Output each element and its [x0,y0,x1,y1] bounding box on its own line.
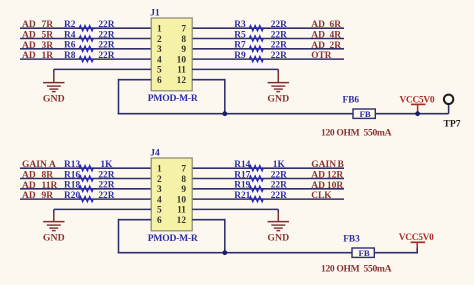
svg-text:22R: 22R [98,170,114,180]
svg-text:8: 8 [181,175,186,185]
svg-text:J1: J1 [150,9,160,19]
wire [372,252,417,254]
resistor R19 [234,181,287,192]
resistor R5 [234,30,287,41]
svg-text:R3: R3 [234,20,246,30]
svg-text:3: 3 [157,45,162,55]
svg-text:8: 8 [181,35,186,45]
svg-text:22R: 22R [98,41,114,51]
svg-text:R4: R4 [64,30,76,40]
svg-text:5: 5 [157,206,162,216]
svg-text:22R: 22R [271,41,287,51]
wire [20,48,151,50]
svg-text:OTR: OTR [311,51,331,61]
svg-text:5: 5 [157,66,162,76]
svg-text:VCC5V0: VCC5V0 [399,233,434,243]
svg-text:R8: R8 [64,51,76,61]
wire [373,113,448,115]
resistor R20 [64,191,115,202]
wire [20,58,151,60]
resistor R18 [64,181,115,192]
svg-text:120 OHM 550mA: 120 OHM 550mA [321,128,392,139]
resistor R14 [234,160,285,171]
svg-text:12: 12 [177,76,187,86]
svg-text:1: 1 [157,25,162,35]
resistor R17 [234,170,287,181]
wire [20,188,151,190]
resistor R3 [234,20,287,31]
wire [192,68,278,70]
svg-text:22R: 22R [98,181,114,191]
resistor R4 [64,30,115,41]
svg-text:R6: R6 [64,41,76,51]
svg-text:1K: 1K [273,160,286,170]
svg-text:9: 9 [181,185,186,195]
svg-text:22R: 22R [271,170,287,180]
svg-text:R18: R18 [64,181,80,191]
svg-text:GND: GND [267,233,289,244]
wire [416,248,418,254]
svg-text:22R: 22R [271,20,287,30]
wire [118,113,355,115]
svg-text:R2: R2 [64,20,76,30]
resistor R21 [234,191,287,202]
wire [192,167,344,169]
ground [43,209,65,243]
svg-text:GND: GND [267,93,289,104]
wire [54,208,151,210]
wire [118,252,354,254]
svg-text:R19: R19 [234,181,250,191]
svg-text:R14: R14 [234,160,250,170]
svg-text:R16: R16 [64,170,80,180]
wire [448,104,450,114]
power VCC5V0 [399,233,434,249]
svg-text:FB: FB [359,248,370,258]
svg-text:R21: R21 [234,191,250,201]
svg-text:GND: GND [43,233,65,244]
connector J1 PMOD-M-R [148,9,199,104]
svg-text:22R: 22R [98,191,114,201]
ferrite bead FB6 [321,96,392,139]
resistor R9 [234,51,287,62]
wire [192,198,344,200]
svg-text:22R: 22R [271,191,287,201]
svg-text:10: 10 [177,55,187,65]
wire [192,48,344,50]
junction [415,111,420,116]
wire [20,38,151,40]
svg-text:FB3: FB3 [343,234,360,244]
svg-text:FB: FB [360,109,371,119]
svg-text:11: 11 [177,66,186,76]
svg-text:AD12R: AD12R [311,171,343,181]
junction [222,250,227,255]
wire [192,27,344,29]
svg-text:120 OHM 550mA: 120 OHM 550mA [321,264,392,275]
svg-text:6: 6 [157,76,162,86]
svg-text:4: 4 [157,195,162,205]
wire [192,188,344,190]
wire [118,79,120,114]
svg-text:9: 9 [181,45,186,55]
wire [192,79,225,81]
svg-text:22R: 22R [271,51,287,61]
wire [192,208,278,210]
resistor R2 [64,20,115,31]
ground [267,209,289,243]
wire [224,79,226,114]
svg-text:10: 10 [177,195,187,205]
resistor R13 [64,160,113,171]
svg-text:PMOD-M-R: PMOD-M-R [148,93,199,104]
svg-text:R5: R5 [234,30,246,40]
svg-text:22R: 22R [98,30,114,40]
svg-text:AD10R: AD10R [311,181,343,191]
svg-text:22R: 22R [98,20,114,30]
wire [118,219,120,253]
svg-text:22R: 22R [271,181,287,191]
svg-text:6: 6 [157,216,162,226]
svg-text:1K: 1K [100,160,113,170]
wire [20,178,151,180]
svg-text:4: 4 [157,55,162,65]
wire [54,68,151,70]
svg-text:R20: R20 [64,191,80,201]
test point TP7 [444,95,461,130]
resistor R7 [234,41,287,52]
wire [192,178,344,180]
svg-text:PMOD-M-R: PMOD-M-R [148,233,199,244]
wire [20,27,151,29]
wire [119,79,152,81]
svg-text:22R: 22R [271,30,287,40]
svg-text:GND: GND [43,93,65,104]
wire [192,38,344,40]
svg-text:R7: R7 [234,41,246,51]
resistor R6 [64,41,115,52]
svg-text:22R: 22R [98,51,114,61]
svg-text:2: 2 [157,35,162,45]
svg-text:GAINA: GAINA [22,160,56,170]
svg-text:12: 12 [177,216,187,226]
svg-text:11: 11 [177,206,186,216]
ground [43,69,65,104]
power VCC5V0 [400,96,435,113]
ground [267,69,289,104]
svg-text:2: 2 [157,175,162,185]
svg-text:R13: R13 [64,160,80,170]
svg-text:CLK: CLK [311,191,332,201]
svg-text:7: 7 [181,25,186,35]
connector J4 PMOD-M-R [148,149,199,244]
svg-text:J4: J4 [150,149,160,159]
svg-text:GAINB: GAINB [311,160,344,170]
wire [20,167,151,169]
svg-text:R9: R9 [234,51,246,61]
svg-text:3: 3 [157,185,162,195]
wire [119,219,152,221]
junction [222,111,227,116]
wire [224,219,226,253]
wire [192,219,225,221]
svg-text:7: 7 [181,165,186,175]
svg-text:R17: R17 [234,170,250,180]
wire [192,58,344,60]
svg-text:TP7: TP7 [444,118,461,129]
ferrite bead FB3 [321,234,392,274]
svg-text:1: 1 [157,165,162,175]
wire [20,198,151,200]
resistor R8 [64,51,115,62]
resistor R16 [64,170,115,181]
svg-text:FB6: FB6 [343,96,360,106]
